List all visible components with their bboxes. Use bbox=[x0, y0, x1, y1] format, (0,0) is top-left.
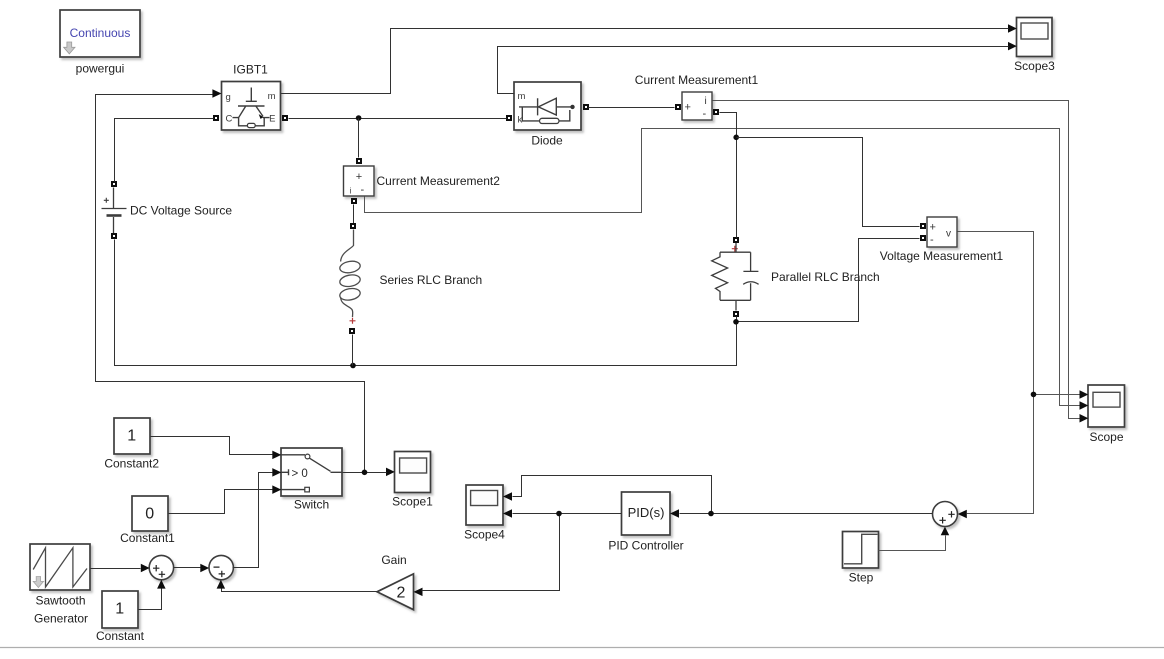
svg-text:Parallel RLC Branch: Parallel RLC Branch bbox=[771, 270, 880, 284]
Sum2 bottom input arrow bbox=[217, 580, 226, 589]
svg-text:2: 2 bbox=[397, 585, 406, 602]
wire: PID output to Scope4 input2 and down to Gain bbox=[422, 514, 622, 591]
junction PID output bbox=[556, 511, 562, 517]
svg-text:powergui: powergui bbox=[76, 62, 125, 76]
Sawtooth Generator block bbox=[30, 544, 90, 590]
IGBT1 gate input arrow bbox=[212, 89, 221, 98]
svg-text:Series RLC Branch: Series RLC Branch bbox=[380, 273, 483, 287]
Scope3 block bbox=[1017, 18, 1053, 57]
wire: Diode m to Scope3 input2 bbox=[498, 47, 1009, 94]
Sum1 bottom input arrow bbox=[157, 580, 166, 589]
wire: Sum3 output to PID input and Scope4 input1 bbox=[513, 476, 933, 514]
wire: Diode cathode to CM1 + bbox=[589, 107, 675, 109]
junction E node bbox=[356, 115, 362, 121]
Voltage Measurement1 block bbox=[927, 217, 957, 247]
VM1 + port bbox=[920, 223, 926, 229]
wire: Step output to Sum3 bbox=[879, 536, 946, 551]
Parallel RLC capacitor bbox=[743, 252, 758, 300]
svg-text:E: E bbox=[269, 114, 275, 125]
Scope4 input arrow 1 bbox=[503, 492, 512, 501]
Switch input arrow 2 bbox=[272, 468, 281, 477]
Parallel RLC top port bbox=[733, 237, 739, 243]
junction bus Series RLC bbox=[350, 363, 356, 369]
svg-text:i: i bbox=[350, 187, 352, 196]
svg-text:-: - bbox=[930, 234, 934, 246]
svg-text:Scope3: Scope3 bbox=[1014, 59, 1055, 73]
svg-text:-: - bbox=[361, 184, 365, 196]
svg-text:0: 0 bbox=[145, 506, 154, 523]
Scope1 input arrow bbox=[386, 468, 395, 477]
Scope input arrow 2 bbox=[1080, 401, 1089, 410]
svg-text:PID Controller: PID Controller bbox=[608, 539, 683, 553]
wire: Sawtooth output to Sum1 bbox=[91, 568, 141, 570]
svg-text:Generator: Generator bbox=[34, 612, 88, 626]
wire: Constant output to Sum1 bottom bbox=[139, 589, 162, 610]
svg-text:Current Measurement1: Current Measurement1 bbox=[635, 73, 759, 87]
svg-text:Current Measurement2: Current Measurement2 bbox=[377, 174, 501, 188]
Parallel RLC red plus bbox=[732, 246, 738, 252]
Sum1 block bbox=[149, 555, 173, 579]
wire: E node down to CM2 + bbox=[358, 119, 360, 158]
svg-text:m: m bbox=[518, 91, 526, 102]
Constant block bbox=[102, 591, 138, 628]
svg-text:Gain: Gain bbox=[381, 553, 406, 567]
wire: CM2 - to Series RLC top bbox=[353, 205, 355, 224]
wire: CM1 - to output node bbox=[720, 113, 737, 238]
Scope4 block (mirrored, inputs on right) bbox=[466, 485, 503, 525]
junction sum3 output bbox=[708, 511, 714, 517]
wire: Sum1 output to Sum2 bbox=[174, 567, 201, 569]
svg-text:+: + bbox=[356, 171, 362, 183]
svg-text:g: g bbox=[226, 92, 231, 103]
Scope3 input arrow 1 bbox=[1008, 24, 1017, 33]
powergui block bbox=[60, 10, 140, 57]
Current Measurement1 block U-CM1 bbox=[682, 92, 712, 120]
Sum3 block bbox=[933, 502, 958, 527]
svg-text:-: - bbox=[703, 108, 707, 120]
Scope input arrow 1 bbox=[1080, 390, 1089, 399]
VM1 - port bbox=[920, 235, 926, 241]
svg-text:Constant1: Constant1 bbox=[120, 531, 175, 545]
Scope input arrow 3 bbox=[1080, 414, 1089, 423]
svg-text:Continuous: Continuous bbox=[70, 26, 131, 40]
svg-text:1: 1 bbox=[127, 428, 136, 445]
Switch input arrow 1 bbox=[272, 451, 281, 460]
svg-text:Diode: Diode bbox=[531, 134, 563, 148]
Gain block bbox=[377, 574, 414, 610]
DC - port bbox=[111, 233, 117, 239]
wire: Constant2 output to Switch input1 bbox=[151, 437, 273, 455]
Diode anode port bbox=[506, 115, 512, 121]
svg-text:Scope: Scope bbox=[1089, 430, 1123, 444]
Parallel RLC bottom port bbox=[733, 311, 739, 317]
DC plus sign bbox=[104, 198, 109, 203]
wire: IGBT m to Scope3 input1 bbox=[281, 29, 1009, 94]
junction switch output bbox=[362, 470, 368, 476]
Parallel RLC body bbox=[720, 243, 751, 311]
svg-text:m: m bbox=[268, 91, 276, 102]
svg-text:i: i bbox=[705, 96, 707, 107]
Parallel RLC resistor bbox=[712, 252, 728, 300]
IGBT1 block bbox=[222, 82, 281, 131]
wire: gate drive from switch junction up-left to IGBT g bbox=[96, 95, 365, 473]
wire: CM1 i output to Scope input3 bbox=[713, 101, 1080, 419]
IGBT1 E port bbox=[282, 115, 288, 121]
canvas bottom separator bbox=[0, 647, 1164, 649]
svg-text:Voltage Measurement1: Voltage Measurement1 bbox=[880, 249, 1004, 263]
DC Voltage Source bbox=[102, 181, 127, 239]
svg-text:1: 1 bbox=[115, 601, 124, 618]
Series RLC top port bbox=[350, 223, 356, 229]
svg-text:> 0: > 0 bbox=[292, 468, 308, 480]
wire: IGBT E to Diode anode bbox=[289, 118, 507, 120]
Scope3 input arrow 2 bbox=[1008, 42, 1017, 51]
svg-text:v: v bbox=[946, 229, 951, 240]
Current Measurement2 block bbox=[344, 166, 375, 196]
svg-text:Constant2: Constant2 bbox=[104, 457, 159, 471]
wire: CM2 i output to Scope input2 bbox=[365, 129, 1080, 406]
wire: VM1 v output down to Scope input1 and Sum3 bbox=[958, 232, 1080, 514]
svg-text:Scope1: Scope1 bbox=[392, 495, 433, 509]
svg-text:PID(s): PID(s) bbox=[628, 505, 665, 520]
wire: Parallel RLC bottom to VM1 - bbox=[737, 239, 920, 323]
svg-text:+: + bbox=[930, 222, 936, 234]
svg-text:Sawtooth: Sawtooth bbox=[35, 594, 85, 608]
CM2 + port bbox=[356, 158, 362, 164]
junction output node bottom bbox=[733, 319, 739, 325]
svg-text:Step: Step bbox=[849, 571, 874, 585]
CM1 - port bbox=[713, 109, 719, 115]
Sum1 left input arrow bbox=[141, 564, 150, 573]
Series RLC red plus bbox=[350, 318, 356, 324]
junction v signal bbox=[1031, 392, 1037, 398]
Scope block bbox=[1088, 385, 1125, 427]
PID Controller block (mirrored) bbox=[622, 492, 671, 535]
CM2 - port bbox=[351, 198, 357, 204]
Gain input arrow bbox=[414, 588, 423, 597]
Parallel RLC Branch bbox=[712, 237, 759, 317]
Scope1 block bbox=[395, 452, 431, 493]
wire: output node to VM1 + bbox=[737, 138, 920, 227]
svg-text:C: C bbox=[226, 114, 233, 125]
DC battery symbol bbox=[102, 188, 127, 234]
Switch block bbox=[281, 448, 342, 496]
wire: switch output to Scope1 bbox=[343, 472, 387, 474]
junction output node top bbox=[733, 135, 739, 141]
svg-text:+: + bbox=[685, 102, 691, 114]
svg-text:Switch: Switch bbox=[294, 498, 329, 512]
DC + port bbox=[111, 181, 117, 187]
wire: Series RLC bottom to bus bbox=[352, 335, 354, 366]
Diode cathode port bbox=[583, 104, 589, 110]
wire: IGBT C to DC Voltage Source + bbox=[115, 119, 214, 182]
CM1 + port bbox=[675, 104, 681, 110]
wire: Constant1 output to Switch input3 bbox=[169, 490, 273, 514]
svg-text:Scope4: Scope4 bbox=[464, 528, 505, 542]
Sum3 right input arrow bbox=[958, 510, 967, 519]
Step block bbox=[843, 532, 879, 569]
wire: Sum2 output up to Switch input2 bbox=[233, 473, 273, 568]
wire: DC Voltage Source - down to ground bus bbox=[115, 240, 737, 366]
Sum3 bottom input arrow bbox=[941, 527, 950, 536]
IGBT1 C port bbox=[213, 115, 219, 121]
svg-text:DC Voltage Source: DC Voltage Source bbox=[130, 204, 232, 218]
Sum2 block bbox=[209, 555, 233, 579]
Scope4 input arrow 2 bbox=[503, 509, 512, 518]
Series RLC Branch inductor coil bbox=[339, 230, 361, 318]
Constant2 block bbox=[114, 418, 150, 454]
wire: Gain output to Sum2 bottom bbox=[222, 589, 378, 592]
Series RLC bottom port bbox=[349, 328, 355, 334]
Constant1 block bbox=[132, 496, 168, 531]
svg-text:Constant: Constant bbox=[96, 629, 145, 643]
Diode block bbox=[514, 82, 581, 130]
Switch input arrow 3 bbox=[272, 485, 281, 494]
svg-text:IGBT1: IGBT1 bbox=[233, 63, 268, 77]
PID input arrow bbox=[670, 509, 679, 518]
Sum2 left input arrow bbox=[200, 564, 209, 573]
